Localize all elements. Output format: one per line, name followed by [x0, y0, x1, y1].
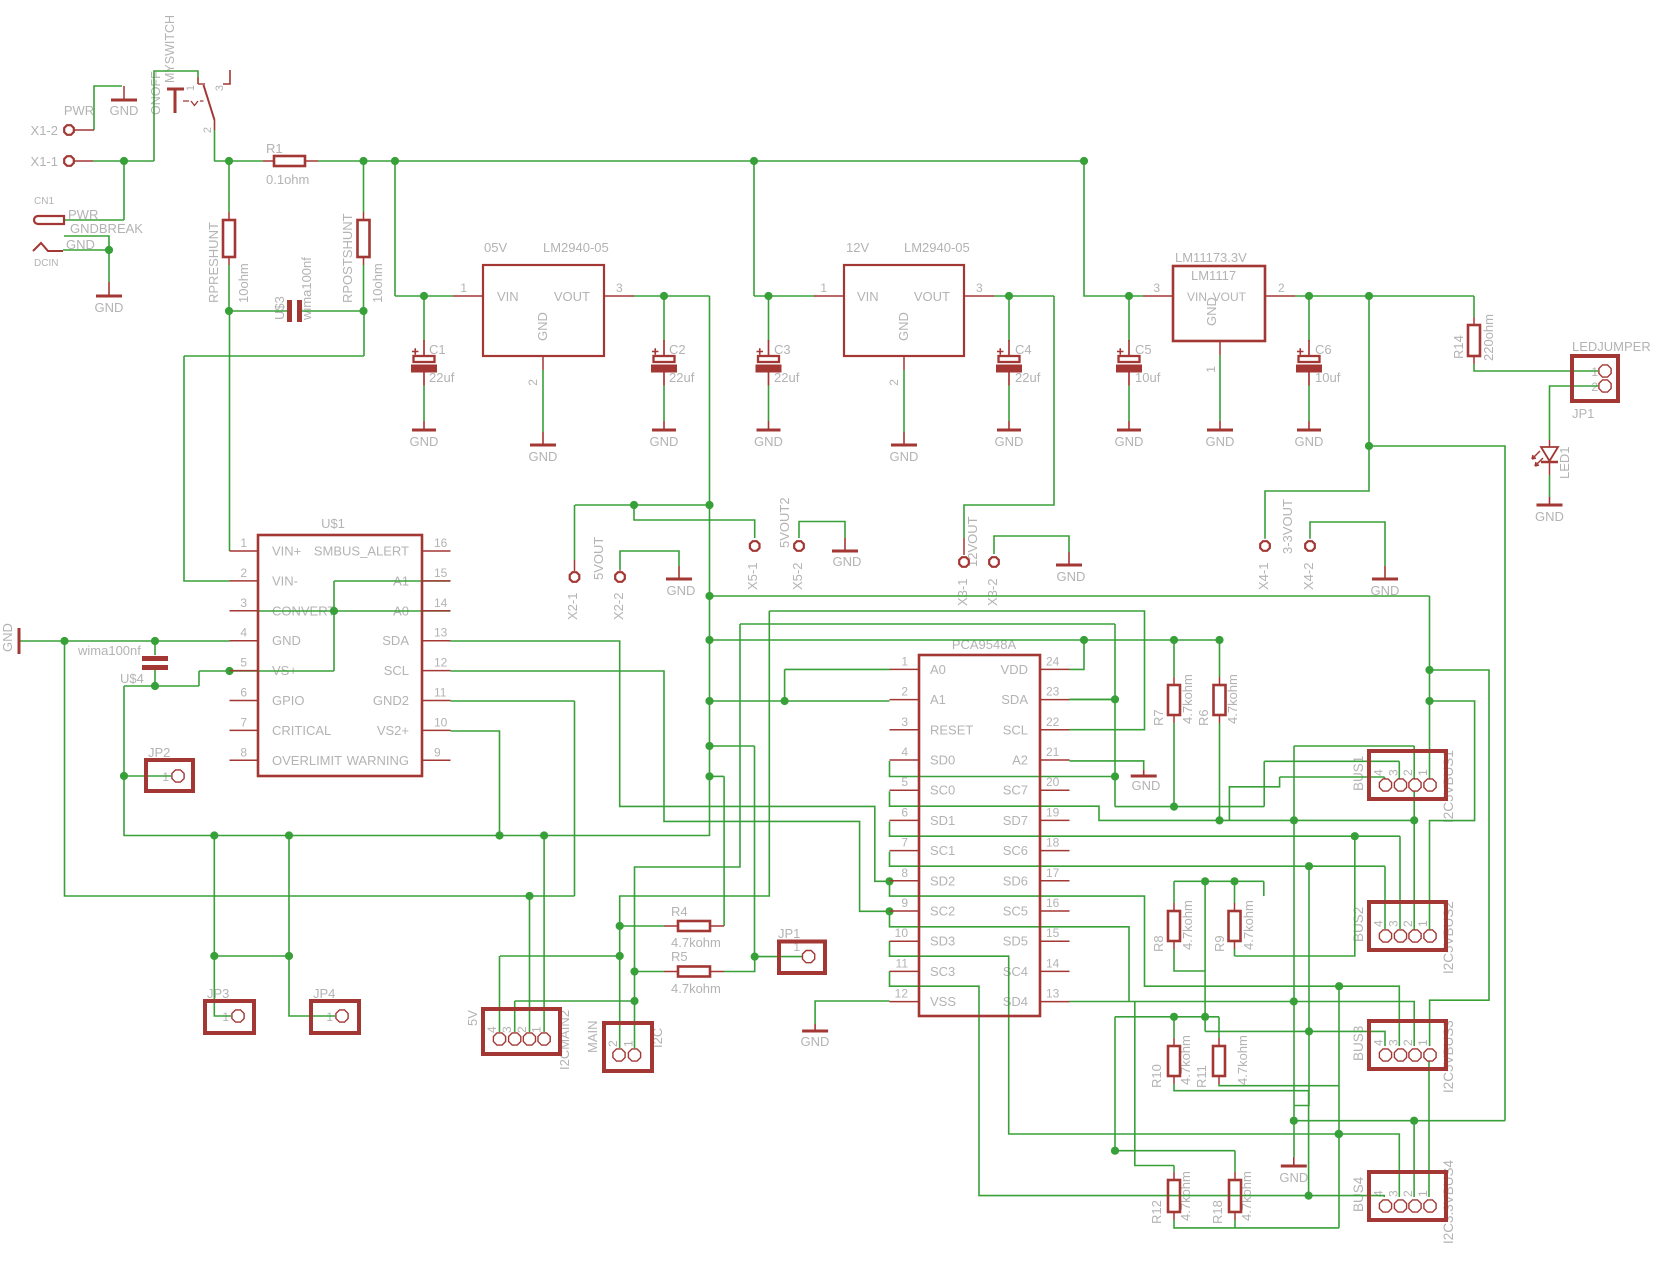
svg-text:12: 12	[434, 656, 448, 670]
svg-text:4.7kohm: 4.7kohm	[1180, 674, 1195, 724]
svg-text:6: 6	[240, 686, 247, 700]
svg-text:GND: GND	[1204, 297, 1219, 326]
svg-text:1: 1	[1416, 920, 1430, 927]
svg-text:16: 16	[434, 536, 448, 550]
svg-text:7: 7	[240, 715, 247, 729]
svg-text:SC3: SC3	[930, 964, 955, 979]
svg-text:SCL: SCL	[384, 663, 409, 678]
svg-text:4.7kohm: 4.7kohm	[671, 935, 721, 950]
svg-text:0.1ohm: 0.1ohm	[266, 172, 309, 187]
svg-text:1: 1	[901, 654, 908, 668]
svg-text:05V: 05V	[484, 240, 507, 255]
svg-text:MAIN: MAIN	[585, 1021, 600, 1054]
svg-text:A0: A0	[930, 662, 946, 677]
svg-text:GND: GND	[995, 434, 1024, 449]
svg-text:3: 3	[901, 715, 908, 729]
svg-text:18: 18	[1046, 836, 1060, 850]
svg-text:GND: GND	[801, 1034, 830, 1049]
svg-text:2: 2	[1591, 380, 1598, 394]
svg-text:LM2940-05: LM2940-05	[543, 240, 609, 255]
svg-text:R12: R12	[1149, 1200, 1164, 1224]
svg-text:SD3: SD3	[930, 934, 955, 949]
svg-text:GND: GND	[529, 449, 558, 464]
svg-text:GND: GND	[410, 434, 439, 449]
svg-text:11: 11	[434, 686, 447, 700]
svg-text:5: 5	[240, 656, 247, 670]
svg-text:1: 1	[1416, 1039, 1430, 1046]
svg-text:GND: GND	[896, 312, 911, 341]
svg-text:2: 2	[1401, 920, 1415, 927]
svg-text:C1: C1	[429, 342, 446, 357]
svg-text:U$1: U$1	[321, 516, 345, 531]
svg-text:SC2: SC2	[930, 904, 955, 919]
svg-text:2: 2	[1278, 281, 1285, 295]
svg-text:3: 3	[500, 1026, 514, 1033]
svg-text:GND: GND	[754, 434, 783, 449]
svg-text:4.7kohm: 4.7kohm	[1241, 900, 1256, 950]
svg-text:WARNING: WARNING	[347, 753, 409, 768]
svg-text:1: 1	[240, 536, 247, 550]
svg-text:1: 1	[1591, 365, 1598, 379]
svg-text:7: 7	[901, 836, 908, 850]
svg-text:3: 3	[1153, 281, 1160, 295]
svg-text:I2C5VBUS1: I2C5VBUS1	[1441, 750, 1456, 823]
svg-text:3: 3	[214, 85, 226, 91]
svg-text:12: 12	[895, 987, 909, 1001]
svg-text:2: 2	[526, 379, 540, 386]
svg-text:LEDJUMPER: LEDJUMPER	[1572, 339, 1651, 354]
svg-text:JP1: JP1	[778, 926, 800, 941]
svg-text:R5: R5	[671, 949, 688, 964]
svg-text:BUS2: BUS2	[1351, 907, 1366, 942]
svg-text:R7: R7	[1151, 709, 1166, 726]
svg-text:GND: GND	[1057, 569, 1086, 584]
svg-text:11: 11	[896, 956, 909, 970]
svg-text:4.7kohm: 4.7kohm	[671, 981, 721, 996]
svg-text:GND: GND	[833, 554, 862, 569]
svg-text:JP1: JP1	[1572, 406, 1594, 421]
svg-text:SD2: SD2	[930, 873, 955, 888]
svg-text:SMBUS_ALERT: SMBUS_ALERT	[314, 544, 409, 559]
svg-text:X3-2: X3-2	[985, 579, 1000, 606]
svg-text:C6: C6	[1315, 342, 1332, 357]
svg-text:GND: GND	[1132, 778, 1161, 793]
svg-text:R11: R11	[1194, 1065, 1209, 1088]
svg-text:12V: 12V	[846, 240, 869, 255]
svg-text:2: 2	[887, 379, 901, 386]
svg-text:PWR: PWR	[64, 103, 94, 118]
svg-text:21: 21	[1046, 745, 1060, 759]
svg-text:14: 14	[1046, 956, 1060, 970]
svg-text:RESET: RESET	[930, 722, 973, 737]
svg-text:VIN+: VIN+	[272, 544, 301, 559]
svg-text:A1: A1	[930, 692, 946, 707]
svg-text:1: 1	[1416, 769, 1430, 776]
svg-text:LED1: LED1	[1557, 446, 1572, 479]
svg-text:4.7kohm: 4.7kohm	[1235, 1035, 1250, 1085]
svg-text:8: 8	[240, 745, 247, 759]
svg-text:C2: C2	[669, 342, 686, 357]
svg-text:4.7kohm: 4.7kohm	[1225, 674, 1240, 724]
svg-text:X2-2: X2-2	[611, 593, 626, 620]
svg-text:LM2940-05: LM2940-05	[904, 240, 970, 255]
svg-text:3: 3	[1387, 1190, 1401, 1197]
svg-text:1: 1	[1416, 1190, 1430, 1197]
svg-text:4: 4	[485, 1026, 499, 1033]
svg-text:VSS: VSS	[930, 994, 956, 1009]
svg-text:GND: GND	[95, 300, 124, 315]
svg-text:U$4: U$4	[120, 671, 144, 686]
svg-text:RPRESHUNT: RPRESHUNT	[206, 222, 221, 303]
svg-text:24: 24	[1046, 654, 1060, 668]
svg-text:A2: A2	[1012, 753, 1028, 768]
svg-text:4: 4	[1372, 769, 1386, 776]
svg-text:23: 23	[1046, 685, 1060, 699]
svg-text:2: 2	[901, 685, 908, 699]
svg-text:4: 4	[1372, 920, 1386, 927]
svg-text:OVERLIMIT: OVERLIMIT	[272, 753, 342, 768]
svg-text:13: 13	[1046, 987, 1060, 1001]
svg-text:R10: R10	[1149, 1064, 1164, 1088]
svg-text:R8: R8	[1151, 935, 1166, 952]
svg-text:2: 2	[515, 1026, 529, 1033]
svg-text:GND: GND	[1295, 434, 1324, 449]
svg-text:SD6: SD6	[1003, 873, 1028, 888]
svg-text:JP3: JP3	[207, 986, 229, 1001]
svg-text:X5-1: X5-1	[745, 563, 760, 590]
svg-text:C4: C4	[1015, 342, 1032, 357]
svg-text:1: 1	[530, 1026, 544, 1033]
svg-text:SD4: SD4	[1003, 994, 1028, 1009]
svg-text:R14: R14	[1451, 335, 1466, 359]
svg-text:10ohm: 10ohm	[236, 263, 251, 303]
svg-text:X1-2: X1-2	[31, 123, 58, 138]
svg-text:R6: R6	[1196, 709, 1211, 726]
svg-text:GND: GND	[667, 583, 696, 598]
svg-text:CN1: CN1	[34, 196, 54, 207]
svg-text:GND: GND	[1206, 434, 1235, 449]
svg-text:GPIO: GPIO	[272, 693, 305, 708]
svg-text:SD5: SD5	[1003, 934, 1028, 949]
svg-text:SDA: SDA	[382, 633, 409, 648]
svg-text:3: 3	[1387, 1039, 1401, 1046]
svg-text:GND: GND	[890, 449, 919, 464]
svg-text:10: 10	[434, 715, 448, 729]
svg-text:GND2: GND2	[373, 693, 409, 708]
svg-text:1: 1	[460, 281, 467, 295]
svg-text:R1: R1	[266, 141, 283, 156]
svg-text:2: 2	[1401, 769, 1415, 776]
svg-text:JP4: JP4	[313, 986, 335, 1001]
svg-text:X4-2: X4-2	[1301, 563, 1316, 590]
svg-text:LM1117: LM1117	[1191, 268, 1236, 283]
svg-text:13: 13	[434, 626, 448, 640]
svg-text:C5: C5	[1135, 342, 1152, 357]
svg-text:2: 2	[202, 127, 214, 133]
svg-text:GND: GND	[1535, 509, 1564, 524]
svg-text:SCL: SCL	[1003, 722, 1028, 737]
svg-text:4: 4	[901, 745, 908, 759]
svg-text:3: 3	[616, 281, 623, 295]
svg-text:CRITICAL: CRITICAL	[272, 723, 331, 738]
svg-text:DCIN: DCIN	[34, 258, 58, 269]
svg-text:X2-1: X2-1	[565, 593, 580, 620]
svg-text:8: 8	[901, 866, 908, 880]
svg-text:I2C5VBUS2: I2C5VBUS2	[1441, 901, 1456, 974]
svg-text:2: 2	[1401, 1190, 1415, 1197]
svg-text:6: 6	[901, 805, 908, 819]
svg-text:C3: C3	[774, 342, 791, 357]
svg-text:U$3: U$3	[272, 296, 287, 320]
svg-text:17: 17	[1046, 866, 1060, 880]
svg-text:3: 3	[1387, 769, 1401, 776]
svg-text:220ohm: 220ohm	[1481, 314, 1496, 361]
svg-text:GND: GND	[272, 633, 301, 648]
svg-text:9: 9	[434, 745, 441, 759]
svg-text:SC4: SC4	[1003, 964, 1028, 979]
svg-text:15: 15	[434, 566, 448, 580]
svg-text:LM11173.3V: LM11173.3V	[1175, 250, 1247, 265]
svg-text:5VOUT: 5VOUT	[591, 537, 606, 580]
svg-text:16: 16	[1046, 896, 1060, 910]
svg-text:VIN: VIN	[497, 289, 519, 304]
svg-text:2: 2	[240, 566, 247, 580]
svg-text:SD1: SD1	[930, 813, 955, 828]
svg-text:SC7: SC7	[1003, 783, 1028, 798]
svg-text:GND: GND	[1279, 1170, 1308, 1185]
svg-text:1: 1	[162, 770, 169, 784]
svg-text:I2C5VBUS3: I2C5VBUS3	[1441, 1020, 1456, 1093]
svg-text:VOUT: VOUT	[914, 289, 950, 304]
svg-text:SD7: SD7	[1003, 813, 1028, 828]
svg-text:VDD: VDD	[1001, 662, 1028, 677]
svg-text:GND: GND	[1115, 434, 1144, 449]
svg-text:VS2+: VS2+	[377, 723, 409, 738]
svg-text:15: 15	[1046, 926, 1060, 940]
svg-text:5VOUT2: 5VOUT2	[777, 497, 792, 548]
svg-text:1: 1	[222, 1010, 229, 1024]
svg-text:1: 1	[622, 1040, 636, 1047]
svg-text:9: 9	[901, 896, 908, 910]
svg-text:1: 1	[1204, 366, 1218, 373]
svg-text:1: 1	[326, 1010, 333, 1024]
svg-text:MYSWITCH: MYSWITCH	[163, 15, 177, 83]
svg-text:4: 4	[1372, 1039, 1386, 1046]
svg-text:GND: GND	[110, 103, 139, 118]
svg-text:X3-1: X3-1	[955, 579, 970, 606]
svg-text:10ohm: 10ohm	[370, 263, 385, 303]
svg-text:ONOFF: ONOFF	[149, 71, 163, 115]
svg-text:R4: R4	[671, 904, 688, 919]
svg-text:wima100nf: wima100nf	[77, 643, 141, 658]
svg-text:1: 1	[185, 85, 197, 91]
svg-text:SD0: SD0	[930, 753, 955, 768]
svg-text:X5-2: X5-2	[790, 563, 805, 590]
svg-text:3: 3	[976, 281, 983, 295]
svg-text:SC6: SC6	[1003, 843, 1028, 858]
svg-text:14: 14	[434, 596, 448, 610]
svg-text:GND: GND	[0, 623, 15, 652]
svg-text:GND: GND	[650, 434, 679, 449]
svg-text:GND: GND	[535, 312, 550, 341]
svg-text:BUS4: BUS4	[1351, 1176, 1366, 1212]
svg-text:5V: 5V	[465, 1010, 480, 1026]
svg-text:2: 2	[606, 1040, 620, 1047]
svg-text:22: 22	[1046, 715, 1060, 729]
svg-text:4.7kohm: 4.7kohm	[1180, 900, 1195, 950]
svg-text:2: 2	[1401, 1039, 1415, 1046]
svg-text:3-3VOUT: 3-3VOUT	[1280, 499, 1295, 554]
svg-text:SC0: SC0	[930, 783, 955, 798]
svg-text:19: 19	[1046, 805, 1060, 819]
svg-text:VOUT: VOUT	[554, 289, 590, 304]
svg-text:GNDBREAK: GNDBREAK	[70, 221, 143, 236]
svg-text:X4-1: X4-1	[1256, 563, 1271, 590]
svg-text:VIN-: VIN-	[272, 573, 298, 588]
svg-text:RPOSTSHUNT: RPOSTSHUNT	[340, 213, 355, 303]
svg-text:R9: R9	[1212, 935, 1227, 952]
svg-text:R18: R18	[1210, 1200, 1225, 1224]
svg-text:3: 3	[1387, 920, 1401, 927]
svg-text:JP2: JP2	[148, 745, 170, 760]
svg-text:SC1: SC1	[930, 843, 955, 858]
svg-text:X1-1: X1-1	[31, 154, 58, 169]
svg-text:3: 3	[240, 596, 247, 610]
svg-text:SC5: SC5	[1003, 904, 1028, 919]
svg-text:4: 4	[240, 626, 247, 640]
svg-text:1: 1	[820, 281, 827, 295]
svg-text:SDA: SDA	[1001, 692, 1028, 707]
svg-text:10: 10	[895, 926, 909, 940]
svg-text:VIN: VIN	[857, 289, 879, 304]
